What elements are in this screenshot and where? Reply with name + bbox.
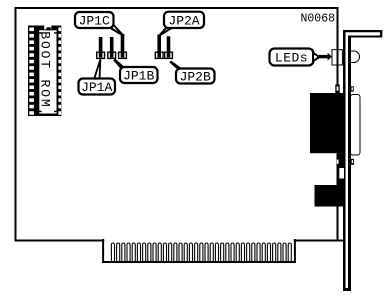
svg-text:JP1A: JP1A (81, 80, 112, 95)
black column between DB and BNC (337, 153, 346, 185)
DB bottom-right mounting tab (351, 159, 355, 165)
label LEDs pointer (313, 53, 319, 61)
label JP1A leader (94, 59, 100, 79)
label JP1B leader (113, 59, 126, 69)
DB shell on bracket (351, 95, 361, 156)
svg-text:JP1B: JP1B (123, 69, 154, 84)
svg-text:LEDs: LEDs (275, 51, 308, 66)
arrow to LEDs (319, 53, 332, 61)
label JP2B leader (169, 61, 183, 70)
label JP1C (75, 12, 114, 29)
edge connector gold fingers (111, 243, 291, 262)
svg-text:JP2A: JP2A (168, 14, 199, 29)
boot ROM chip inner body (38, 30, 59, 113)
LED dome (351, 51, 360, 63)
svg-text:JP2B: JP2B (180, 70, 211, 85)
boot ROM chip U1 socket body (28, 26, 61, 117)
jumper JP2 pin1 (155, 35, 163, 59)
DB top-right mounting tab (351, 86, 354, 91)
DB top-left mounting tab (335, 85, 339, 94)
label JP1B (120, 67, 158, 84)
jumper JP1 pin2 (108, 37, 116, 58)
jumper JP1 pin3 (119, 34, 127, 58)
bracket (metal mounting bracket with top tab) (343, 30, 382, 291)
jumper JP1 pin1 (97, 37, 105, 58)
svg-text:N0068: N0068 (301, 12, 336, 25)
jumper JP2 pin2 (165, 36, 173, 58)
wire: bottom edge extension to bracket (337, 240, 346, 242)
wire: bottom edge gap over edge connector (104, 238, 294, 242)
boot ROM chip orientation notch (44, 25, 51, 30)
BNC connector body (black) (315, 185, 346, 207)
label LEDs (270, 49, 314, 66)
boot ROM chip right pins (58, 28, 61, 115)
label JP2A (164, 12, 204, 29)
svg-text:JP1C: JP1C (79, 14, 110, 29)
label JP2B (176, 69, 215, 85)
card outline (PCB board) (16, 8, 338, 241)
label JP1A (79, 79, 116, 96)
label JP2A leader (159, 28, 172, 36)
LED holder on bracket (332, 50, 342, 65)
edge connector outline (103, 239, 295, 262)
connector DB housing (black) (310, 93, 346, 153)
boot ROM chip left pins (29, 28, 34, 115)
label JP1C leader (107, 26, 124, 37)
svg-text:BOOT ROM: BOOT ROM (38, 31, 53, 108)
